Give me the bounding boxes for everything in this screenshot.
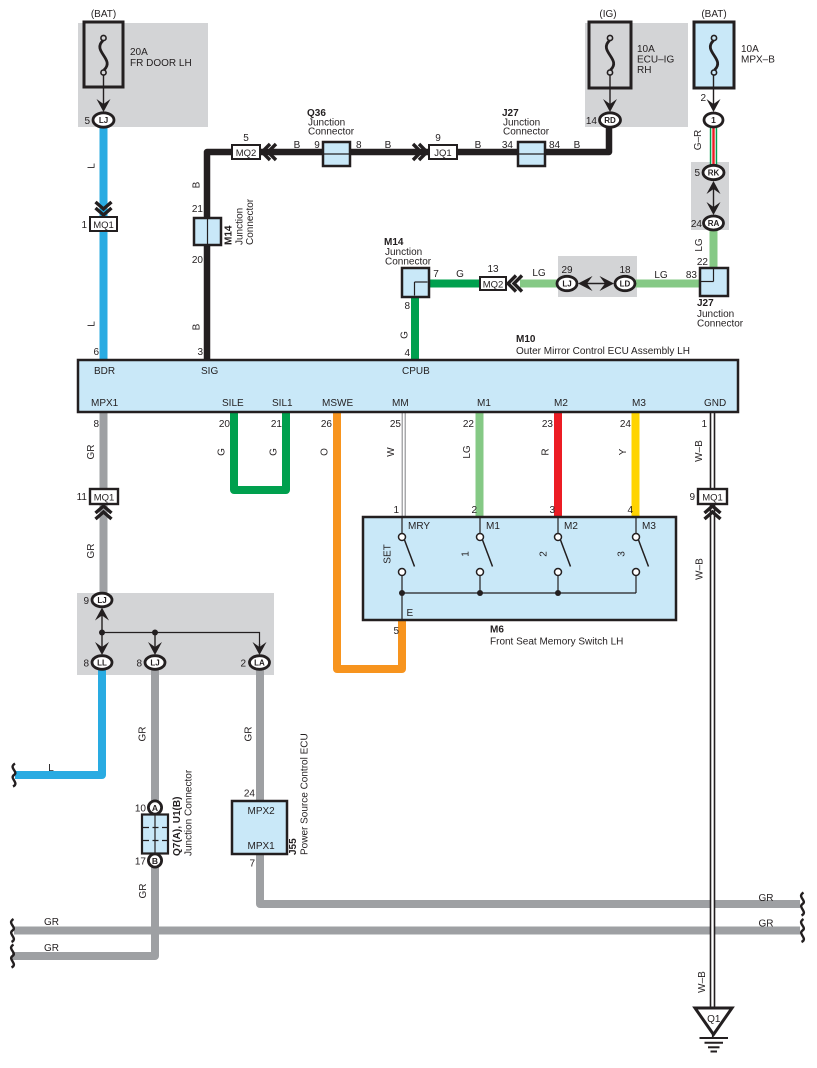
svg-text:GND: GND	[704, 398, 726, 409]
svg-text:G: G	[456, 269, 464, 280]
shading panel fuse FR DOOR LH	[78, 23, 208, 127]
svg-text:LJ: LJ	[150, 658, 159, 667]
wire GR gray: M10 MPX1 down to splice LJ	[100, 412, 108, 595]
svg-text:21: 21	[271, 419, 283, 430]
svg-text:8: 8	[83, 659, 89, 670]
svg-text:RA: RA	[708, 219, 720, 228]
svg-text:ECU–IG: ECU–IG	[637, 55, 674, 66]
svg-text:1: 1	[81, 220, 87, 231]
svg-text:(BAT): (BAT)	[701, 9, 726, 20]
svg-text:Y: Y	[618, 448, 629, 455]
svg-text:2: 2	[240, 659, 246, 670]
svg-text:B: B	[574, 140, 581, 151]
svg-text:22: 22	[697, 257, 709, 268]
svg-text:FR DOOR LH: FR DOOR LH	[130, 58, 192, 69]
connector 5 RK	[703, 165, 724, 179]
svg-text:M14: M14	[224, 225, 235, 245]
arrows down to LL, LJ, LA	[101, 633, 103, 648]
svg-text:LG: LG	[694, 238, 705, 252]
svg-text:LJ: LJ	[99, 116, 108, 125]
svg-text:B: B	[385, 140, 392, 151]
svg-text:13: 13	[487, 264, 499, 275]
wire G loop SILE-SIL1	[234, 412, 286, 490]
switch M1	[479, 517, 481, 534]
connector 9 JQ1	[429, 145, 457, 159]
wire B black net: M10 SIG up, across top, to ECU-IG fuse	[207, 126, 609, 360]
shading panel LJ/LD splice	[558, 256, 637, 297]
svg-text:(BAT): (BAT)	[91, 9, 116, 20]
svg-text:2: 2	[471, 505, 477, 516]
svg-text:24: 24	[244, 789, 256, 800]
fuse 20A FR DOOR LH	[84, 22, 123, 87]
connector 8 LJ	[145, 656, 165, 670]
svg-text:MSWE: MSWE	[322, 398, 353, 409]
svg-text:4: 4	[627, 505, 633, 516]
svg-text:B: B	[192, 181, 203, 188]
wire G green: M14 to M10 CPUB	[411, 297, 419, 360]
svg-text:Connector: Connector	[385, 257, 432, 268]
svg-text:7: 7	[249, 859, 255, 870]
wire L cyan: fuse FR DOOR LH to M10 pin 6 BDR	[100, 127, 108, 360]
junction connector Q7(A), U1(B)	[142, 815, 168, 854]
connector 9 MQ1 (right)	[698, 489, 727, 504]
svg-text:G: G	[400, 331, 411, 339]
svg-text:8: 8	[136, 659, 142, 670]
svg-text:B: B	[294, 140, 301, 151]
svg-text:LG: LG	[532, 268, 546, 279]
terminal 10 A	[148, 801, 161, 814]
wire W white double: MM to M6 pin 1	[401, 412, 403, 517]
svg-text:2: 2	[539, 551, 550, 557]
svg-text:(IG): (IG)	[599, 9, 616, 20]
connector 2 LA	[250, 656, 270, 670]
fuse 10A MPX-B	[694, 22, 734, 88]
svg-text:Power Source Control ECU: Power Source Control ECU	[300, 733, 311, 855]
svg-text:B: B	[192, 323, 203, 330]
ground Q1	[695, 1008, 732, 1035]
svg-text:2: 2	[700, 93, 706, 104]
svg-text:SET: SET	[383, 544, 394, 563]
wire W-B double: M10 GND down to ground Q1	[710, 412, 715, 1008]
wire GR: LA splice down to J55	[256, 670, 264, 802]
wire G-R striped: connector 1 to RK	[710, 126, 717, 166]
svg-text:E: E	[407, 608, 414, 619]
svg-text:MPX1: MPX1	[91, 398, 119, 409]
svg-text:20: 20	[219, 419, 231, 430]
svg-text:MQ2: MQ2	[483, 280, 504, 291]
svg-text:Connector: Connector	[503, 127, 550, 138]
wire GR: J55 pin 7 down and right to break	[260, 853, 800, 904]
svg-text:1: 1	[711, 115, 716, 125]
svg-text:5: 5	[243, 133, 249, 144]
svg-text:MM: MM	[392, 398, 409, 409]
svg-text:M2: M2	[554, 398, 568, 409]
svg-text:1: 1	[701, 419, 707, 430]
svg-text:3: 3	[549, 505, 555, 516]
svg-text:Connector: Connector	[697, 319, 744, 330]
svg-text:GR: GR	[138, 727, 149, 742]
wire R red: M2 to M6 pin 3	[554, 412, 562, 517]
pass-through chevron on cyan	[96, 202, 112, 209]
svg-text:7: 7	[433, 269, 439, 280]
switch M3	[635, 517, 637, 534]
svg-text:24: 24	[620, 419, 632, 430]
svg-text:9: 9	[435, 133, 441, 144]
svg-text:9: 9	[83, 596, 89, 607]
svg-text:3: 3	[197, 347, 203, 358]
splice double arrow LJ-LD	[586, 283, 606, 285]
svg-text:20A: 20A	[130, 47, 148, 58]
svg-text:5: 5	[393, 626, 399, 637]
svg-text:26: 26	[321, 419, 333, 430]
wire Y yellow: M3 to M6 pin 4	[632, 412, 640, 517]
svg-text:10: 10	[135, 804, 147, 815]
svg-text:GR: GR	[244, 727, 255, 742]
svg-text:8: 8	[356, 140, 362, 151]
svg-text:4: 4	[404, 348, 410, 359]
svg-text:25: 25	[390, 419, 402, 430]
svg-text:8: 8	[93, 419, 99, 430]
svg-text:M3: M3	[642, 521, 656, 532]
svg-text:10A: 10A	[741, 44, 759, 55]
svg-text:Junction Connector: Junction Connector	[184, 769, 195, 856]
svg-text:J55: J55	[288, 838, 299, 855]
svg-text:Connector: Connector	[245, 198, 256, 245]
svg-text:RD: RD	[604, 116, 616, 125]
svg-text:A: A	[152, 803, 158, 813]
svg-text:G: G	[269, 448, 280, 456]
svg-text:20: 20	[192, 255, 204, 266]
splice bus	[102, 633, 260, 647]
double arrow RK to RA	[713, 187, 715, 209]
connector 8 LL	[92, 656, 112, 670]
svg-text:GR: GR	[138, 884, 149, 899]
svg-text:W–B: W–B	[695, 558, 706, 580]
svg-text:34: 34	[502, 140, 514, 151]
terminal 17 B	[148, 854, 161, 867]
svg-text:9: 9	[314, 140, 320, 151]
svg-text:LJ: LJ	[562, 279, 571, 288]
svg-text:G: G	[217, 448, 228, 456]
svg-text:9: 9	[689, 492, 695, 503]
svg-text:M2: M2	[564, 521, 578, 532]
arrow from fuse to connector 1	[713, 76, 715, 105]
svg-text:MQ2: MQ2	[236, 148, 257, 159]
svg-text:W: W	[386, 447, 397, 457]
svg-text:Front Seat Memory Switch LH: Front Seat Memory Switch LH	[490, 637, 623, 648]
svg-text:L: L	[87, 163, 98, 169]
svg-text:SIG: SIG	[201, 366, 218, 377]
svg-text:JQ1: JQ1	[434, 148, 451, 159]
wire G green horizontal: M14 to MQ2	[429, 280, 480, 288]
break symbols	[11, 919, 14, 942]
wire L cyan bottom: LL splice to left break	[15, 670, 102, 775]
connector 1 MQ1	[90, 217, 117, 231]
shading panel fuse ECU-IG	[585, 23, 688, 127]
junction connector Q36	[323, 142, 350, 166]
svg-text:GR: GR	[44, 917, 59, 928]
connector 24 RA	[704, 216, 724, 230]
svg-text:J27: J27	[697, 298, 714, 309]
svg-text:L: L	[48, 763, 54, 774]
connector 1	[704, 113, 723, 127]
connector 5 LJ	[93, 113, 114, 127]
junction connector J27 (top)	[518, 142, 545, 166]
wire O orange: MSWE to M6 pin 5 E	[337, 412, 402, 669]
svg-text:Q7(A), U1(B): Q7(A), U1(B)	[172, 797, 183, 856]
svg-text:GR: GR	[44, 943, 59, 954]
svg-text:SIL1: SIL1	[272, 398, 293, 409]
M6 common bus	[402, 592, 636, 594]
svg-text:W–B: W–B	[697, 971, 708, 993]
connector 9 LJ	[92, 593, 112, 607]
svg-text:M6: M6	[490, 625, 504, 636]
svg-text:23: 23	[542, 419, 554, 430]
svg-text:GR: GR	[86, 445, 97, 460]
svg-text:Outer Mirror Control ECU Assem: Outer Mirror Control ECU Assembly LH	[516, 346, 690, 357]
svg-text:RK: RK	[708, 168, 720, 177]
ECU J55 Power Source Control ECU	[232, 801, 287, 854]
svg-text:LG: LG	[654, 270, 668, 281]
svg-text:M1: M1	[486, 521, 500, 532]
shading panel RK/RA connectors	[691, 162, 729, 230]
svg-text:17: 17	[135, 857, 147, 868]
svg-text:B: B	[475, 140, 482, 151]
svg-text:10A: 10A	[637, 44, 655, 55]
svg-text:22: 22	[463, 419, 475, 430]
svg-text:R: R	[541, 448, 552, 455]
svg-text:MPX–B: MPX–B	[741, 55, 775, 66]
svg-text:11: 11	[77, 492, 88, 503]
chevron toward JQ1	[419, 144, 427, 160]
switch M6 Front Seat Memory Switch LH	[363, 517, 676, 620]
wire LG: MQ2 to LJ splice	[520, 280, 558, 288]
svg-text:MQ1: MQ1	[93, 220, 114, 231]
svg-text:5: 5	[694, 168, 700, 179]
svg-text:Q1: Q1	[707, 1014, 721, 1025]
wire GR: LJ splice down through Q7 to bottom-left	[12, 670, 155, 956]
svg-text:O: O	[320, 448, 331, 456]
svg-text:MPX1: MPX1	[248, 841, 276, 852]
svg-text:LD: LD	[620, 279, 631, 288]
switch MRY	[401, 517, 403, 534]
svg-text:B: B	[152, 856, 158, 866]
wire LG vertical: RA to J27 pin 22	[710, 229, 718, 269]
wire LG: LD splice to J27 pin 83	[634, 280, 701, 288]
svg-text:18: 18	[619, 265, 631, 276]
svg-text:MQ1: MQ1	[702, 493, 723, 504]
svg-text:M10: M10	[516, 334, 536, 345]
svg-text:5: 5	[84, 116, 90, 127]
svg-text:MQ1: MQ1	[94, 493, 115, 504]
svg-text:1: 1	[461, 551, 472, 557]
switch M2	[557, 517, 559, 534]
svg-text:MRY: MRY	[408, 521, 430, 532]
svg-text:LG: LG	[462, 445, 473, 459]
svg-text:M3: M3	[632, 398, 646, 409]
svg-text:SILE: SILE	[222, 398, 244, 409]
junction connector J27 (right)	[700, 268, 728, 296]
svg-text:3: 3	[617, 551, 628, 557]
connector 11 MQ1 (left)	[90, 489, 118, 504]
svg-text:21: 21	[192, 204, 204, 215]
svg-text:G–R: G–R	[693, 130, 704, 151]
svg-text:24: 24	[691, 219, 703, 230]
junction connector M14 (middle)	[402, 268, 429, 297]
svg-text:GR: GR	[86, 544, 97, 559]
svg-text:8: 8	[404, 301, 410, 312]
svg-text:1: 1	[393, 505, 399, 516]
svg-text:LJ: LJ	[97, 596, 106, 605]
svg-text:29: 29	[561, 265, 573, 276]
wire GR full-width horizontal	[14, 927, 800, 935]
svg-text:M1: M1	[477, 398, 491, 409]
svg-text:CPUB: CPUB	[402, 366, 430, 377]
svg-text:6: 6	[93, 347, 99, 358]
svg-text:RH: RH	[637, 65, 651, 76]
arrow from fuse to connector RD	[609, 76, 611, 105]
svg-text:83: 83	[686, 270, 698, 281]
wire LG: M1 to M6 pin 2	[476, 412, 484, 517]
chevron toward MQ2	[262, 144, 270, 160]
svg-text:Connector: Connector	[308, 127, 355, 138]
svg-text:BDR: BDR	[94, 366, 115, 377]
fuse 10A ECU-IG RH	[589, 22, 631, 88]
svg-text:GR: GR	[759, 919, 774, 930]
svg-text:GR: GR	[759, 893, 774, 904]
svg-text:W–B: W–B	[694, 440, 705, 462]
arrow up into LJ	[101, 616, 103, 633]
svg-text:MPX2: MPX2	[248, 806, 276, 817]
svg-text:Junction: Junction	[235, 208, 246, 245]
svg-text:14: 14	[586, 116, 598, 127]
connector 14 RD	[600, 113, 621, 127]
svg-text:LL: LL	[97, 658, 107, 667]
svg-text:L: L	[87, 321, 98, 327]
svg-text:84: 84	[549, 140, 561, 151]
arrow from fuse to connector LJ	[103, 76, 105, 105]
svg-text:LA: LA	[254, 658, 265, 667]
shading panel bottom-left splice block	[77, 593, 274, 675]
chevron toward MQ2 (green)	[508, 276, 516, 292]
